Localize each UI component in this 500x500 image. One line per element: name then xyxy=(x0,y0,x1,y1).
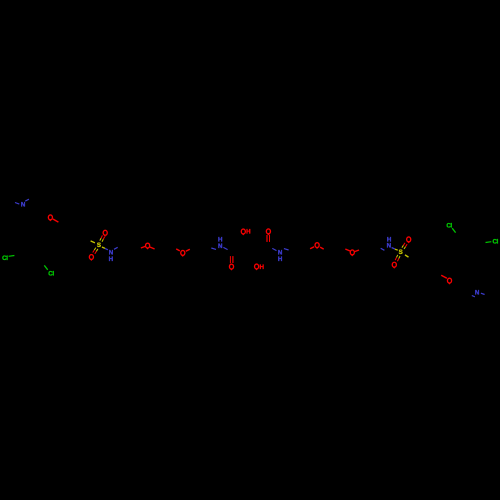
double bond S1=O6 xyxy=(93,248,98,254)
bond O3-CH2 stub right xyxy=(150,247,155,249)
double bond C2=O10 red halves xyxy=(267,235,270,242)
atom O6 left sulfonyl O bottom xyxy=(89,255,93,261)
bond S1-N2 half yellow half blue xyxy=(102,247,108,250)
atom O11 right PEG ether O 2 xyxy=(315,243,319,249)
svg-text:N: N xyxy=(475,290,480,297)
double bond S1=O5 xyxy=(100,235,105,241)
bond N3-C(=O) stub down-right xyxy=(223,247,227,249)
bond O3-CH2 stub left xyxy=(141,246,145,248)
double bond S2=O13 xyxy=(395,255,400,261)
bond N2-CH2 stub up-right xyxy=(114,247,118,249)
atom O5 left sulfonyl O top xyxy=(103,230,107,236)
svg-text:N: N xyxy=(21,202,26,209)
bond O15-ring stub up-left xyxy=(441,275,447,278)
svg-text:H: H xyxy=(218,237,223,244)
svg-text:S: S xyxy=(97,242,101,249)
svg-text:N: N xyxy=(387,243,392,250)
double bond S2=O14 xyxy=(402,243,407,249)
svg-text:Cl: Cl xyxy=(446,222,452,229)
atom O15 right aryl ether O xyxy=(447,278,451,284)
bond N3-CH2 stub down-left xyxy=(211,248,216,249)
atom Cl1 left chlorine xyxy=(2,255,8,262)
bond N1-CH2 stub upper-right xyxy=(25,199,29,201)
svg-text:H: H xyxy=(278,256,283,263)
svg-text:H: H xyxy=(387,236,392,243)
bond S2-N8 half yellow half blue xyxy=(392,248,398,251)
bond Cl1-ring stub right xyxy=(9,255,15,258)
atom O12 right PEG ether O xyxy=(350,250,354,256)
atom N3 left amide NH (H above) xyxy=(218,237,223,251)
bond Cl2-ring stub up-left xyxy=(44,265,47,269)
atom Cl3 right chlorine xyxy=(493,239,499,246)
bond O11-CH2 stub left xyxy=(310,247,314,249)
bond Cl3-ring stub left xyxy=(486,241,492,244)
svg-text:H: H xyxy=(259,264,264,271)
atom O4 left PEG ether O 2 xyxy=(181,250,185,256)
svg-text:Cl: Cl xyxy=(493,239,499,246)
bond Cl4-ring stub down-right xyxy=(452,228,455,232)
atom O14 right sulfonyl O top xyxy=(407,237,411,243)
bond N4-C(=O) stub up-left xyxy=(272,248,276,250)
bond N9-CH3 stub lower-right xyxy=(481,293,485,294)
atom O7 left amide carbonyl O xyxy=(229,264,233,270)
svg-text:N: N xyxy=(218,243,223,250)
svg-text:H: H xyxy=(246,229,251,236)
svg-text:Cl: Cl xyxy=(2,255,8,262)
atom S1 left sulfonamide S xyxy=(97,242,101,249)
double bond C1=O7 red halves xyxy=(230,256,233,263)
atom N2 left sulfonamide NH xyxy=(109,250,114,263)
atom O2 left aryl ether O xyxy=(48,215,52,221)
atom N9 right dimethylamino N xyxy=(475,290,480,297)
bond O11-CH2 stub right xyxy=(320,247,324,249)
bond O12-CH2 stub right xyxy=(355,250,359,252)
bond S2-ring stub down-right xyxy=(405,255,409,257)
svg-text:Cl: Cl xyxy=(48,270,54,277)
atom O10 right amide carbonyl O xyxy=(266,229,270,235)
bond S1-ring stub up-left xyxy=(91,241,95,243)
svg-text:H: H xyxy=(109,256,114,263)
atom O13 right sulfonyl O bottom xyxy=(392,262,396,268)
bond N8-CH2 stub down-left xyxy=(381,248,385,250)
bond N4-CH2 stub up-right xyxy=(284,249,289,250)
bond O4-CH2 stub right xyxy=(186,249,190,251)
atom Cl2 left chlorine 2 xyxy=(48,270,54,277)
bond O12-CH2 stub left xyxy=(345,249,350,251)
atom S2 right sulfonamide S xyxy=(399,249,403,256)
bond O2-ring stub down-right xyxy=(53,219,59,222)
atom O9 hydroxyl OH bottom xyxy=(255,264,265,271)
svg-text:S: S xyxy=(399,249,403,256)
atom N4 right amide NH (H below) xyxy=(278,250,283,264)
bond N1-CH3 stub upper-left xyxy=(15,203,19,205)
atom O8 hydroxyl OH top xyxy=(241,229,251,236)
atom N1 left dimethylamino N xyxy=(21,202,26,209)
bond O4-CH2 stub left xyxy=(176,249,180,251)
atom Cl4 right chlorine 2 xyxy=(446,222,452,229)
atom O3 left PEG ether O xyxy=(146,243,150,249)
atom N8 right sulfonamide NH (H above) xyxy=(387,236,392,249)
bond N9-CH2 stub lower-left xyxy=(472,296,475,297)
